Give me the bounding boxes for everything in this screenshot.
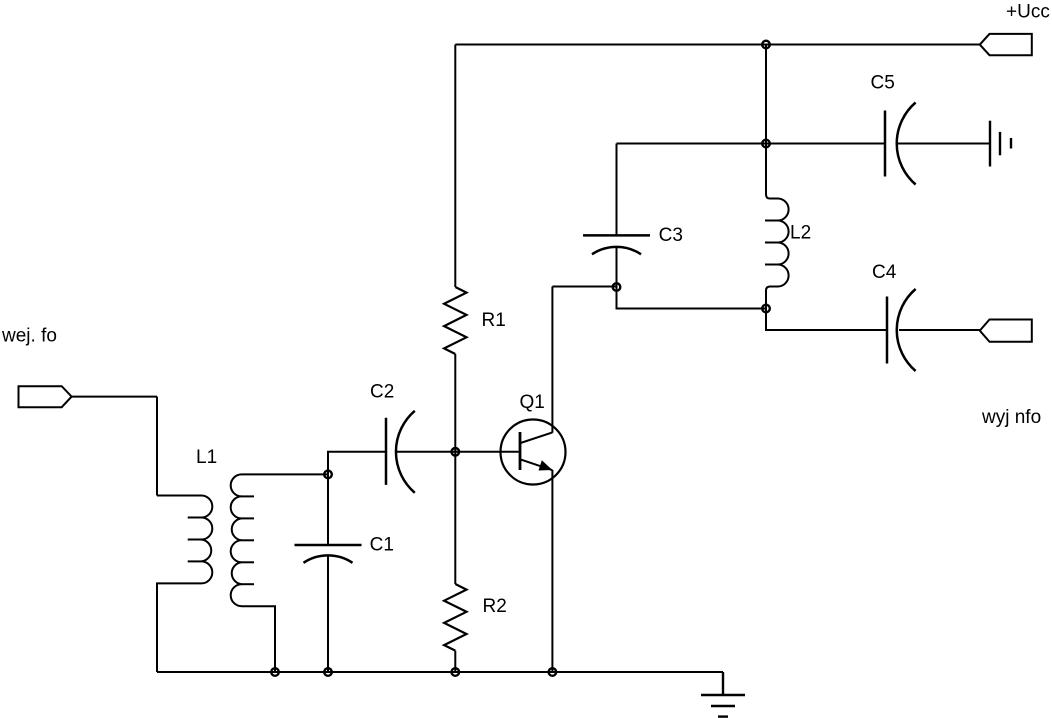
node rail junction 3: [452, 668, 460, 676]
inductor L1 secondary winding: [231, 474, 328, 672]
capacitor C4: [887, 289, 916, 371]
node C2 C1 junction: [324, 471, 332, 479]
node junction top rail: [762, 41, 770, 49]
ground GND bottom: [701, 672, 745, 717]
capacitor C5: [885, 103, 916, 185]
wire Q1 base wire: [397, 451, 519, 453]
wire Ucc drop: [765, 45, 767, 144]
wire C4 to output: [899, 329, 980, 331]
svg-text:C2: C2: [370, 382, 394, 403]
svg-text:+Ucc: +Ucc: [1006, 2, 1050, 23]
node rail junction 4: [549, 668, 557, 676]
wire input horizontal: [72, 396, 157, 398]
node base junction: [452, 448, 460, 456]
inductor L1 primary winding: [157, 496, 212, 673]
svg-text:R1: R1: [482, 310, 506, 331]
transistor Q1: [501, 420, 566, 485]
wire C2 left lead: [328, 452, 386, 475]
node rail junction 1: [271, 668, 279, 676]
wire collector to node: [552, 286, 616, 288]
connector +Ucc: [980, 34, 1032, 55]
wire C1 top lead: [327, 474, 329, 545]
wire C3 bottom lead: [616, 247, 618, 309]
node rail junction 2: [324, 668, 332, 676]
capacitor C2: [386, 411, 415, 493]
wire C3 top lead: [616, 144, 618, 236]
node L2 bottom junction: [762, 305, 770, 313]
inductor L1 primary ticks: [188, 517, 202, 519]
svg-text:R2: R2: [483, 596, 507, 617]
connector wej. fo: [19, 386, 72, 407]
svg-text:C1: C1: [370, 535, 394, 556]
svg-text:wej. fo: wej. fo: [1, 326, 57, 347]
node junction mid rail: [762, 140, 770, 148]
capacitor C1: [295, 545, 362, 563]
wire C1 bottom lead: [327, 555, 329, 672]
resistor R2: [444, 584, 466, 651]
wire mid rail to C5: [617, 143, 886, 145]
wire bottom ground rail: [157, 671, 723, 673]
inductor L2 ticks: [765, 220, 781, 222]
wire Q1 collector vertical: [551, 287, 553, 433]
svg-text:C4: C4: [872, 262, 897, 283]
wire R1 to R2 vertical: [454, 354, 456, 584]
svg-text:C5: C5: [871, 72, 895, 93]
inductor L2: [766, 144, 789, 309]
svg-text:L1: L1: [196, 447, 217, 468]
wire tank bottom horizontal: [617, 287, 767, 309]
svg-text:Q1: Q1: [520, 392, 545, 413]
resistor R1: [444, 287, 466, 354]
svg-text:C3: C3: [659, 225, 683, 246]
svg-text:L2: L2: [790, 222, 811, 243]
ground GND right: [990, 121, 1011, 167]
wire input drop: [156, 397, 158, 496]
capacitor C3: [583, 235, 650, 254]
node collector junction: [613, 283, 621, 291]
wire R1 top drop: [454, 45, 456, 288]
connector wyj nfo: [980, 320, 1032, 342]
wire C5 to ground: [897, 143, 990, 145]
wire Q1 emitter vertical: [551, 470, 553, 672]
inductor L1 secondary ticks: [242, 495, 255, 497]
wire top rail +Ucc: [455, 44, 980, 46]
wire R2 bottom lead: [454, 651, 456, 672]
svg-text:wyj nfo: wyj nfo: [981, 407, 1041, 428]
wire L2 to C4: [766, 309, 887, 331]
